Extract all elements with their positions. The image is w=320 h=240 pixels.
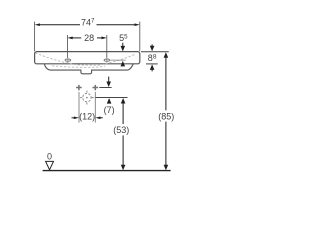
dim 28 arrowheads [67,37,106,40]
dim 8-8 up arrow [150,64,155,71]
dim (12) extension line right [94,92,96,123]
dim 5-5 up arrow [121,61,126,67]
washbasin bowl skirt [44,64,133,74]
dim 28 line [72,37,102,39]
dim 8-8 top extension (rim top prolonged) [141,51,169,53]
svg-text:(7): (7) [104,105,115,115]
svg-text:28: 28 [84,33,94,43]
dim 74-7 arrowheads [35,23,140,26]
dim 74-7 extension line right [139,22,141,52]
dim 74-7 line [40,24,135,26]
svg-text:(53): (53) [113,125,129,135]
floor line [43,170,171,172]
dim (12) left arrow [72,116,80,119]
leader from right tap hole [110,59,125,61]
dim (53) line upper [121,98,126,170]
dim 28 extension line left [67,35,69,58]
fixing hole cross right [93,85,99,90]
floor datum triangle [46,161,54,169]
washbasin rim (front elevation outline) [35,52,140,64]
dim 28 extension line right [106,35,108,58]
dim 5-5 down arrow [121,43,126,52]
leader from right cross (tap row level) [99,87,111,89]
dim 8-8 bottom extension (apron bottom prolonged) [146,63,158,65]
drain hole circle [80,91,94,105]
tap hole marker left [65,58,71,63]
dim 74-7 extension line left [34,22,36,52]
leader from drain centre level [95,97,127,99]
tap hole marker right [104,58,110,63]
dim (12) right arrow [95,116,103,119]
svg-text:0: 0 [47,152,52,162]
fixing hole cross left [76,85,82,90]
dim (7) down arrow [106,77,111,87]
dim (7) up arrow [107,98,112,104]
hidden bowl contour (dashed) [35,53,135,65]
svg-text:(85): (85) [158,112,174,122]
dim (85) line [164,52,169,170]
dim (12) extension line left [78,92,80,123]
dim 8-8 down arrow [150,44,155,51]
hidden bowl bottom (dashed) [52,66,105,68]
svg-text:(12): (12) [79,112,95,122]
